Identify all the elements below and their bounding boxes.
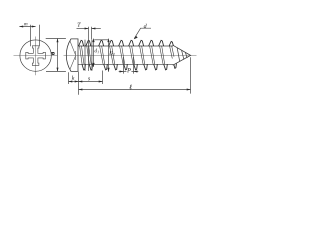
dimension dk <box>46 39 66 72</box>
node shank core top line <box>78 45 173 47</box>
wire length extension line left (underhead face) <box>78 72 80 95</box>
wire T extension line left <box>88 27 90 71</box>
wire thread start vertical B <box>91 40 93 71</box>
label dk <box>51 52 54 54</box>
label m <box>24 23 27 25</box>
wire dk extension line bottom <box>46 70 66 72</box>
dimension P <box>119 57 139 74</box>
wire m extension line right <box>39 25 41 47</box>
label D1 <box>109 51 113 55</box>
label P <box>127 68 131 72</box>
wire P extension line right <box>133 57 135 74</box>
node recess side profile <box>70 41 76 55</box>
dimension d leader <box>134 28 151 38</box>
wire dk extension line top <box>46 38 66 40</box>
dimension m <box>19 25 39 47</box>
wire k extension line <box>68 72 70 84</box>
node thread teeth bottom <box>82 64 176 70</box>
wire taper thread mark 2 <box>182 50 184 59</box>
dimension T <box>77 27 101 71</box>
node thread teeth top <box>79 40 174 46</box>
label T <box>78 23 81 27</box>
wire length extension line right (tip) <box>190 57 192 93</box>
node screw head circle <box>20 40 51 71</box>
node head side profile <box>66 39 78 72</box>
wire taper thread mark 3 <box>185 53 187 59</box>
node recess side profile lower <box>70 56 76 70</box>
wire m extension line left <box>30 25 32 47</box>
wire T extension line right <box>91 27 93 40</box>
node phillips recess cross <box>26 46 46 66</box>
label k <box>72 76 75 80</box>
wire s extension line <box>102 71 104 85</box>
wire connector line between diameter dims <box>94 39 108 41</box>
wire vertical centerline left view <box>35 37 37 76</box>
node screw tip cone <box>173 45 191 65</box>
dimension overall length <box>79 57 191 95</box>
label d1 <box>95 49 98 53</box>
dimension k <box>69 72 79 84</box>
wire taper thread mark 1 <box>177 48 180 62</box>
wire thread flank lines <box>80 46 174 64</box>
dimension D1 (second diameter) <box>108 40 110 72</box>
dimension d1 (core diameter) <box>93 40 95 67</box>
node recess bottom edge <box>75 51 77 60</box>
wire P extension line left <box>123 57 125 74</box>
node shank core bottom line <box>78 63 173 65</box>
wire horizontal centerline left view <box>14 55 58 57</box>
wire screw axis centerline <box>64 55 197 57</box>
label l (length) <box>129 85 132 90</box>
label d <box>144 24 147 28</box>
dimension s <box>79 71 103 85</box>
wire thread start vertical A <box>84 40 86 71</box>
label s <box>88 77 90 80</box>
